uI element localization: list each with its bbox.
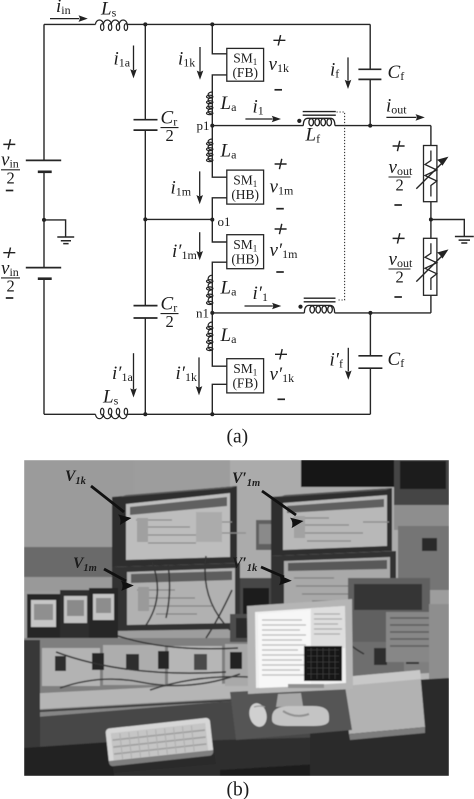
label vout/2 lower xyxy=(389,249,413,287)
current arrow i_1a xyxy=(130,46,137,79)
svg-text:(a): (a) xyxy=(227,427,249,448)
svg-text:2: 2 xyxy=(396,176,404,195)
wire lower Cf branch xyxy=(369,313,371,414)
inductor La 4 xyxy=(207,322,213,351)
svg-text:2: 2 xyxy=(7,169,15,188)
photo grey cabinet right xyxy=(398,526,449,590)
label minus v1m xyxy=(276,208,284,210)
photo gap equipment between stacks xyxy=(240,578,271,630)
photo converter unit top-left panel xyxy=(126,493,230,560)
wire ground stub left xyxy=(44,220,66,237)
load resistor lower vout/2 xyxy=(416,238,444,295)
photo converter unit bottom-right body xyxy=(271,551,396,615)
photo shadow under keyboard xyxy=(100,750,216,774)
wire p1 horizontal xyxy=(212,125,431,127)
svg-text:i′1a: i′1a xyxy=(112,363,133,384)
svg-text:v1k: v1k xyxy=(269,54,289,75)
wire Cr branch xyxy=(144,24,146,414)
svg-text:v1m: v1m xyxy=(270,177,294,198)
label minus vout lower xyxy=(394,296,402,298)
photo (b) experimental setup xyxy=(24,460,449,776)
photo bench front edge xyxy=(24,672,449,714)
svg-text:o1: o1 xyxy=(218,214,231,229)
node dot Cf bottom junction xyxy=(368,311,372,315)
current arrow i_1m xyxy=(196,171,203,204)
svg-text:i1: i1 xyxy=(253,97,264,118)
node dot left rail mid xyxy=(42,218,46,222)
svg-text:i1k: i1k xyxy=(178,49,195,70)
photo converter unit bottom-left panel xyxy=(127,568,235,625)
current arrow i'_f xyxy=(345,348,352,380)
photo annotation V_1m xyxy=(73,555,134,591)
wire right load rail xyxy=(430,126,432,313)
SM box U3 HB xyxy=(227,235,264,269)
svg-text:2: 2 xyxy=(166,312,174,331)
label plus vin upper xyxy=(3,139,15,149)
svg-text:La: La xyxy=(220,278,238,299)
label plus vout upper xyxy=(393,141,405,151)
current arrow i_1k xyxy=(197,47,204,80)
photo light psu box lower right xyxy=(343,670,425,734)
svg-text:v′1k: v′1k xyxy=(270,364,295,385)
label vin/2 upper xyxy=(1,150,20,188)
capacitor Cf upper xyxy=(358,69,381,79)
node dot Cr mid xyxy=(143,217,147,221)
photo annotation V'_1m xyxy=(232,470,304,528)
svg-text:(b): (b) xyxy=(227,780,250,799)
photo annotation V_1k xyxy=(65,468,132,525)
load resistor upper vout/2 xyxy=(416,146,444,202)
photo converter unit bottom-right panel xyxy=(284,557,390,610)
label plus v'1k xyxy=(275,349,287,359)
SM box U1 FB top xyxy=(227,48,264,81)
current arrow i_out xyxy=(386,114,424,121)
svg-text:(HB): (HB) xyxy=(231,252,259,267)
current arrow i'_1 xyxy=(245,303,282,310)
wire ground stub right xyxy=(431,220,464,237)
SM box U4 FB bottom xyxy=(227,359,264,393)
capacitor Cr/2 lower xyxy=(134,306,158,318)
svg-text:La: La xyxy=(220,141,238,162)
inductor La 1 xyxy=(207,92,213,115)
node dot bottom Cr xyxy=(143,412,147,416)
node dot load mid xyxy=(429,218,433,222)
label plus v'1m xyxy=(275,224,287,234)
photo small stool xyxy=(256,520,278,550)
inductor La 2 xyxy=(207,139,213,162)
label minus vin lower xyxy=(6,297,14,299)
svg-text:2: 2 xyxy=(166,126,174,145)
load resistor upper arrow head xyxy=(437,157,449,166)
svg-text:i1m: i1m xyxy=(171,178,192,199)
svg-text:Ls: Ls xyxy=(102,387,119,408)
photo converter unit top-right panel xyxy=(283,495,387,550)
svg-text:Lf: Lf xyxy=(305,125,321,146)
label plus v1k xyxy=(273,35,285,45)
node dot top Cr xyxy=(143,22,147,26)
SM box U2 HB xyxy=(227,170,264,204)
label plus vout lower xyxy=(393,233,405,243)
label vin/2 lower xyxy=(1,258,20,296)
load resistor lower arrow head xyxy=(437,249,449,258)
photo right lower dark zone xyxy=(310,678,449,776)
photo dark corner bottom left xyxy=(24,742,114,776)
ground left xyxy=(57,237,74,244)
photo cables xyxy=(56,556,364,673)
label minus v'1m xyxy=(276,271,284,273)
svg-text:La: La xyxy=(220,93,238,114)
node dot top leg xyxy=(210,22,214,26)
photo bench band xyxy=(24,638,449,694)
current arrow i_in xyxy=(50,15,88,22)
transformer Lf lower winding xyxy=(304,305,334,313)
node o1 dot xyxy=(210,218,214,222)
photo converter unit top-left body xyxy=(112,486,237,567)
svg-text:n1: n1 xyxy=(196,306,209,321)
photo right edge floor xyxy=(429,604,449,684)
photo monitor stand xyxy=(276,693,303,707)
photo mouse xyxy=(247,701,269,728)
photo clutter under right stack xyxy=(271,613,401,640)
transformer Lf upper winding xyxy=(303,118,335,125)
label minus vout upper xyxy=(394,204,402,206)
photo plot window on screen xyxy=(304,646,342,681)
capacitor Cf lower xyxy=(358,356,382,368)
photo converter unit bottom-left body xyxy=(112,563,240,631)
svg-text:Cf: Cf xyxy=(388,349,405,370)
current arrow i'_1a xyxy=(130,353,137,397)
photo wall background xyxy=(24,460,449,776)
photo desk top around monitor xyxy=(230,686,352,740)
ground right xyxy=(455,237,474,244)
photo monitor brand strip xyxy=(288,684,324,688)
current arrow i_f xyxy=(345,57,352,89)
transformer coupling dotted line xyxy=(337,112,345,300)
svg-text:Ls: Ls xyxy=(100,0,117,20)
wire left rail xyxy=(43,24,45,414)
svg-text:i′1: i′1 xyxy=(253,283,268,304)
label Cr/2 upper xyxy=(161,108,179,146)
capacitor Cr/2 upper xyxy=(134,120,158,130)
svg-text:i′1k: i′1k xyxy=(176,363,197,384)
svg-text:(FB): (FB) xyxy=(232,376,258,391)
label plus v1m xyxy=(275,159,287,169)
svg-text:i1a: i1a xyxy=(114,49,131,70)
photo left meters xyxy=(27,594,60,652)
svg-text:if: if xyxy=(330,60,339,81)
svg-text:2: 2 xyxy=(396,268,404,287)
photo bench modules row xyxy=(42,648,100,686)
battery vin/2 upper xyxy=(26,160,61,171)
photo monitor xyxy=(247,599,353,694)
svg-text:iin: iin xyxy=(56,0,71,17)
photo annotation V'_1k xyxy=(232,555,292,585)
inductor Ls top xyxy=(96,20,128,31)
svg-text:i′1m: i′1m xyxy=(172,241,197,262)
transformer Lf lower core bars xyxy=(304,298,336,302)
wire right top rail with Cf xyxy=(369,24,371,125)
svg-text:2: 2 xyxy=(7,277,15,296)
photo keyboard xyxy=(105,717,213,766)
label minus v1k xyxy=(275,89,283,91)
current arrow i_1 xyxy=(245,116,281,123)
node n1 dot xyxy=(210,311,214,315)
battery vin/2 lower xyxy=(26,268,61,279)
photo module components xyxy=(55,656,66,671)
transformer Lf lower phase dot xyxy=(298,305,302,309)
photo dark desk foreground xyxy=(24,692,449,776)
label plus vin lower xyxy=(3,248,15,258)
svg-text:Cf: Cf xyxy=(388,62,405,83)
svg-text:(HB): (HB) xyxy=(231,187,259,202)
svg-text:p1: p1 xyxy=(197,118,210,133)
node dot Cf top junction xyxy=(368,124,372,128)
wire bottom rail xyxy=(44,413,370,415)
wire n1 horizontal xyxy=(212,312,431,314)
current arrow i'_1m xyxy=(196,232,203,260)
svg-text:(FB): (FB) xyxy=(232,65,258,80)
photo dark gear top far right xyxy=(394,460,449,505)
transformer Lf upper phase dot xyxy=(297,119,301,123)
inductor Ls bottom xyxy=(96,408,128,419)
photo equipment right behind monitor xyxy=(348,578,430,642)
wire middle leg xyxy=(212,24,227,414)
svg-text:i′f: i′f xyxy=(330,350,343,371)
svg-text:v′1m: v′1m xyxy=(270,240,299,261)
label minus vin upper xyxy=(6,190,14,192)
transformer Lf upper core bars xyxy=(303,112,336,116)
svg-text:iout: iout xyxy=(386,96,407,117)
node p1 dot xyxy=(210,124,214,128)
svg-text:La: La xyxy=(220,325,238,346)
wire top rail xyxy=(44,23,370,25)
label minus v'1k xyxy=(278,398,286,400)
current arrow i'_1k xyxy=(196,357,203,395)
photo converter unit top-right body xyxy=(271,488,392,556)
label vout/2 upper xyxy=(389,157,413,195)
inductor La 3 xyxy=(207,275,213,304)
wire o1 to Cr midpoint xyxy=(145,218,212,220)
photo wall patch right xyxy=(394,505,449,530)
photo left wall dark band xyxy=(24,547,115,577)
label Cr/2 lower xyxy=(161,294,179,332)
node dot bottom leg xyxy=(210,412,214,416)
photo blackboard top right xyxy=(301,460,394,487)
